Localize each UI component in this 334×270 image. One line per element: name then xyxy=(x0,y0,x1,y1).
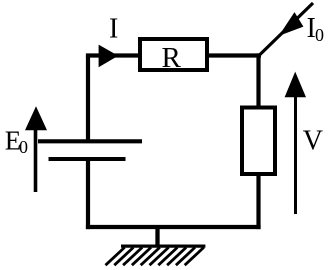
battery E0: top plate xyxy=(38,139,142,143)
wire: right vertical, bottom segment xyxy=(256,174,260,229)
wire: bottom horizontal xyxy=(86,225,261,229)
svg-text:0: 0 xyxy=(19,137,28,157)
emf arrow E0 xyxy=(25,106,47,192)
label I0 xyxy=(307,13,325,45)
svg-text:I: I xyxy=(109,14,118,45)
ground xyxy=(106,227,206,265)
wire: top horizontal (battery to resistor) xyxy=(86,53,140,57)
svg-text:V: V xyxy=(303,125,323,156)
resistor R xyxy=(140,39,207,74)
voltage arrow V xyxy=(285,72,306,214)
svg-text:R: R xyxy=(162,42,182,74)
wire: left vertical, bottom segment xyxy=(86,159,90,229)
wire: resistor to top-right node xyxy=(207,53,261,57)
wire: right vertical, top segment xyxy=(256,53,260,107)
svg-text:0: 0 xyxy=(315,25,324,45)
output wire (I0 branch, diagonal) xyxy=(260,3,313,55)
wire: left vertical, top segment xyxy=(86,56,90,142)
label E0 xyxy=(5,125,28,157)
load box (right element) xyxy=(242,108,275,175)
current arrow I0 xyxy=(279,12,304,36)
current arrow I xyxy=(99,45,119,68)
battery E0: bottom plate xyxy=(49,157,126,161)
